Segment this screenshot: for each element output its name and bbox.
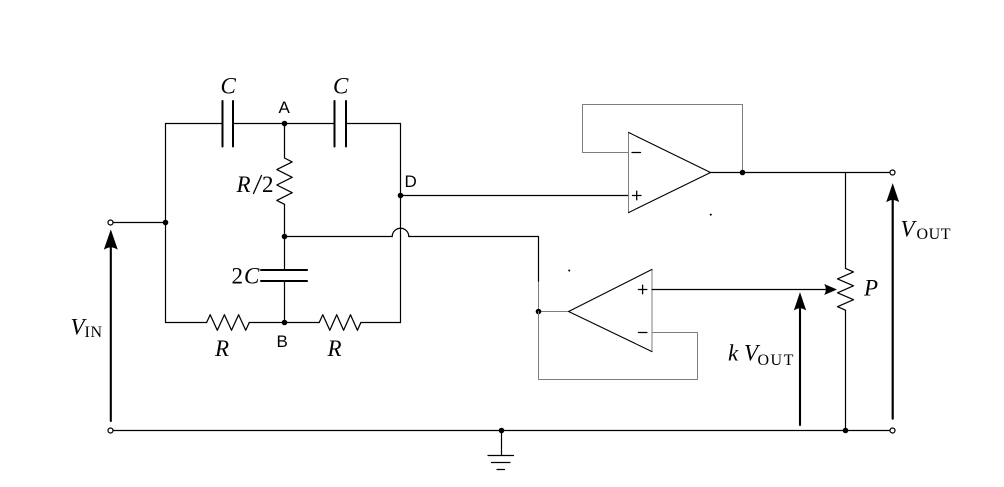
node junction input xyxy=(163,220,169,226)
wire node D to op-amp U1 + input xyxy=(401,195,629,197)
resistor R right (horizontal) xyxy=(319,315,361,331)
label V_IN xyxy=(71,315,103,342)
node B xyxy=(282,320,288,326)
node A xyxy=(282,121,288,127)
svg-text:B: B xyxy=(277,332,288,351)
svg-text:IN: IN xyxy=(85,324,103,341)
wire bottom ground rail xyxy=(113,430,890,432)
wire left vertical of twin-T xyxy=(165,124,167,323)
wire bottom T rail left xyxy=(166,322,207,324)
wire top rail left xyxy=(166,123,223,125)
svg-text:2: 2 xyxy=(262,172,274,197)
svg-text:V: V xyxy=(901,217,918,242)
wire 2C top lead xyxy=(284,237,286,271)
wire top rail middle xyxy=(233,123,335,125)
op-amp U2 anchor dot xyxy=(568,270,570,272)
svg-text:OUT: OUT xyxy=(758,352,795,369)
svg-text:A: A xyxy=(279,98,291,117)
input ground terminal xyxy=(108,428,113,433)
input terminal xyxy=(108,220,113,225)
svg-text:P: P xyxy=(863,276,878,301)
svg-text:2: 2 xyxy=(232,264,244,289)
capacitor 2C value label xyxy=(232,264,261,289)
op-amp U1 minus pin marker xyxy=(632,152,641,154)
ground symbol xyxy=(501,431,503,456)
wire node to hop xyxy=(285,236,393,238)
svg-text:OUT: OUT xyxy=(917,226,952,243)
wire hop over vertical xyxy=(392,228,409,236)
label k V_OUT xyxy=(728,340,795,369)
svg-text:k: k xyxy=(728,340,739,365)
node pot bottom xyxy=(843,428,849,434)
svg-text:D: D xyxy=(405,172,417,191)
op-amp U1 body xyxy=(628,132,630,212)
svg-text:C: C xyxy=(221,74,237,99)
node D xyxy=(398,193,404,199)
svg-text:C: C xyxy=(333,74,349,99)
svg-text:C: C xyxy=(244,264,260,289)
node A-bottom junction xyxy=(282,234,288,240)
wire twin-T center to U2 (black part) xyxy=(409,237,539,283)
wire 2C bottom lead xyxy=(284,281,286,323)
svg-text:R: R xyxy=(236,172,251,197)
resistor R left (horizontal) xyxy=(207,315,250,331)
op-amp U2 feedback wire xyxy=(539,312,698,380)
svg-text:R: R xyxy=(214,336,229,361)
op-amp U2 plus pin marker xyxy=(638,289,647,291)
arrow V_IN xyxy=(110,246,112,421)
op-amp U1 plus pin marker xyxy=(633,195,642,197)
output terminal xyxy=(890,170,895,175)
resistor R/2 value label xyxy=(236,172,274,197)
wire input to junction xyxy=(113,222,165,224)
wire pot bottom to ground rail xyxy=(845,310,847,430)
capacitor C1 plates xyxy=(222,101,224,147)
label V_OUT xyxy=(901,217,952,244)
arrow V_OUT xyxy=(892,200,894,419)
potentiometer P (vertical resistor) xyxy=(838,268,854,310)
wire U2 + input to pot wiper xyxy=(652,289,826,291)
wire down to U2 output (gray part) xyxy=(539,282,569,312)
output ground terminal xyxy=(890,428,895,433)
node U1 output/feedback junction xyxy=(740,170,746,176)
wire right vertical of twin-T xyxy=(400,124,402,323)
op-amp U1 anchor dot xyxy=(710,214,712,216)
op-amp U2 body (points left) xyxy=(651,269,653,351)
svg-text:R: R xyxy=(327,336,342,361)
pot wiper arrowhead xyxy=(824,284,837,295)
wire top rail right xyxy=(346,123,401,125)
wire bottom T rail right xyxy=(361,322,401,324)
wire U1 output xyxy=(711,172,890,174)
op-amp U1 feedback wire xyxy=(583,105,743,173)
node ground junction xyxy=(499,428,505,434)
resistor R/2 (vertical) xyxy=(277,124,292,237)
op-amp U2 minus pin marker xyxy=(638,332,647,334)
capacitor 2C plates (horizontal) xyxy=(261,269,307,271)
arrow k V_OUT xyxy=(799,308,801,425)
capacitor C2 plates xyxy=(334,101,336,147)
wire between R and node B xyxy=(249,322,319,324)
wire output to pot top xyxy=(845,173,847,269)
node U2 output junction xyxy=(536,309,542,315)
